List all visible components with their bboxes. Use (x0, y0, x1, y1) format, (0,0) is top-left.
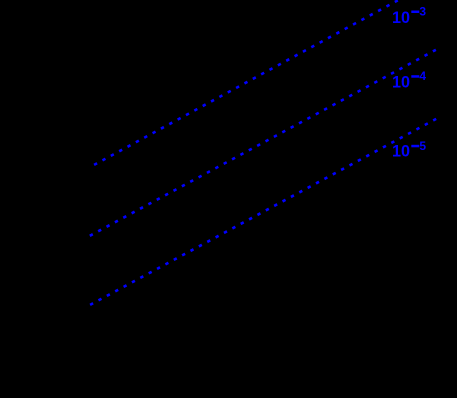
svg-text:10: 10 (392, 142, 410, 160)
svg-text:3: 3 (419, 4, 426, 18)
dotted line 10^-3 (top) (94, 0, 398, 165)
svg-text:10: 10 (392, 9, 410, 27)
dotted line 10^-5 (bottom) (90, 118, 437, 305)
svg-text:4: 4 (419, 69, 426, 83)
svg-text:10: 10 (392, 73, 410, 91)
svg-text:5: 5 (419, 139, 426, 153)
dotted line 10^-4 (middle) (90, 49, 437, 236)
